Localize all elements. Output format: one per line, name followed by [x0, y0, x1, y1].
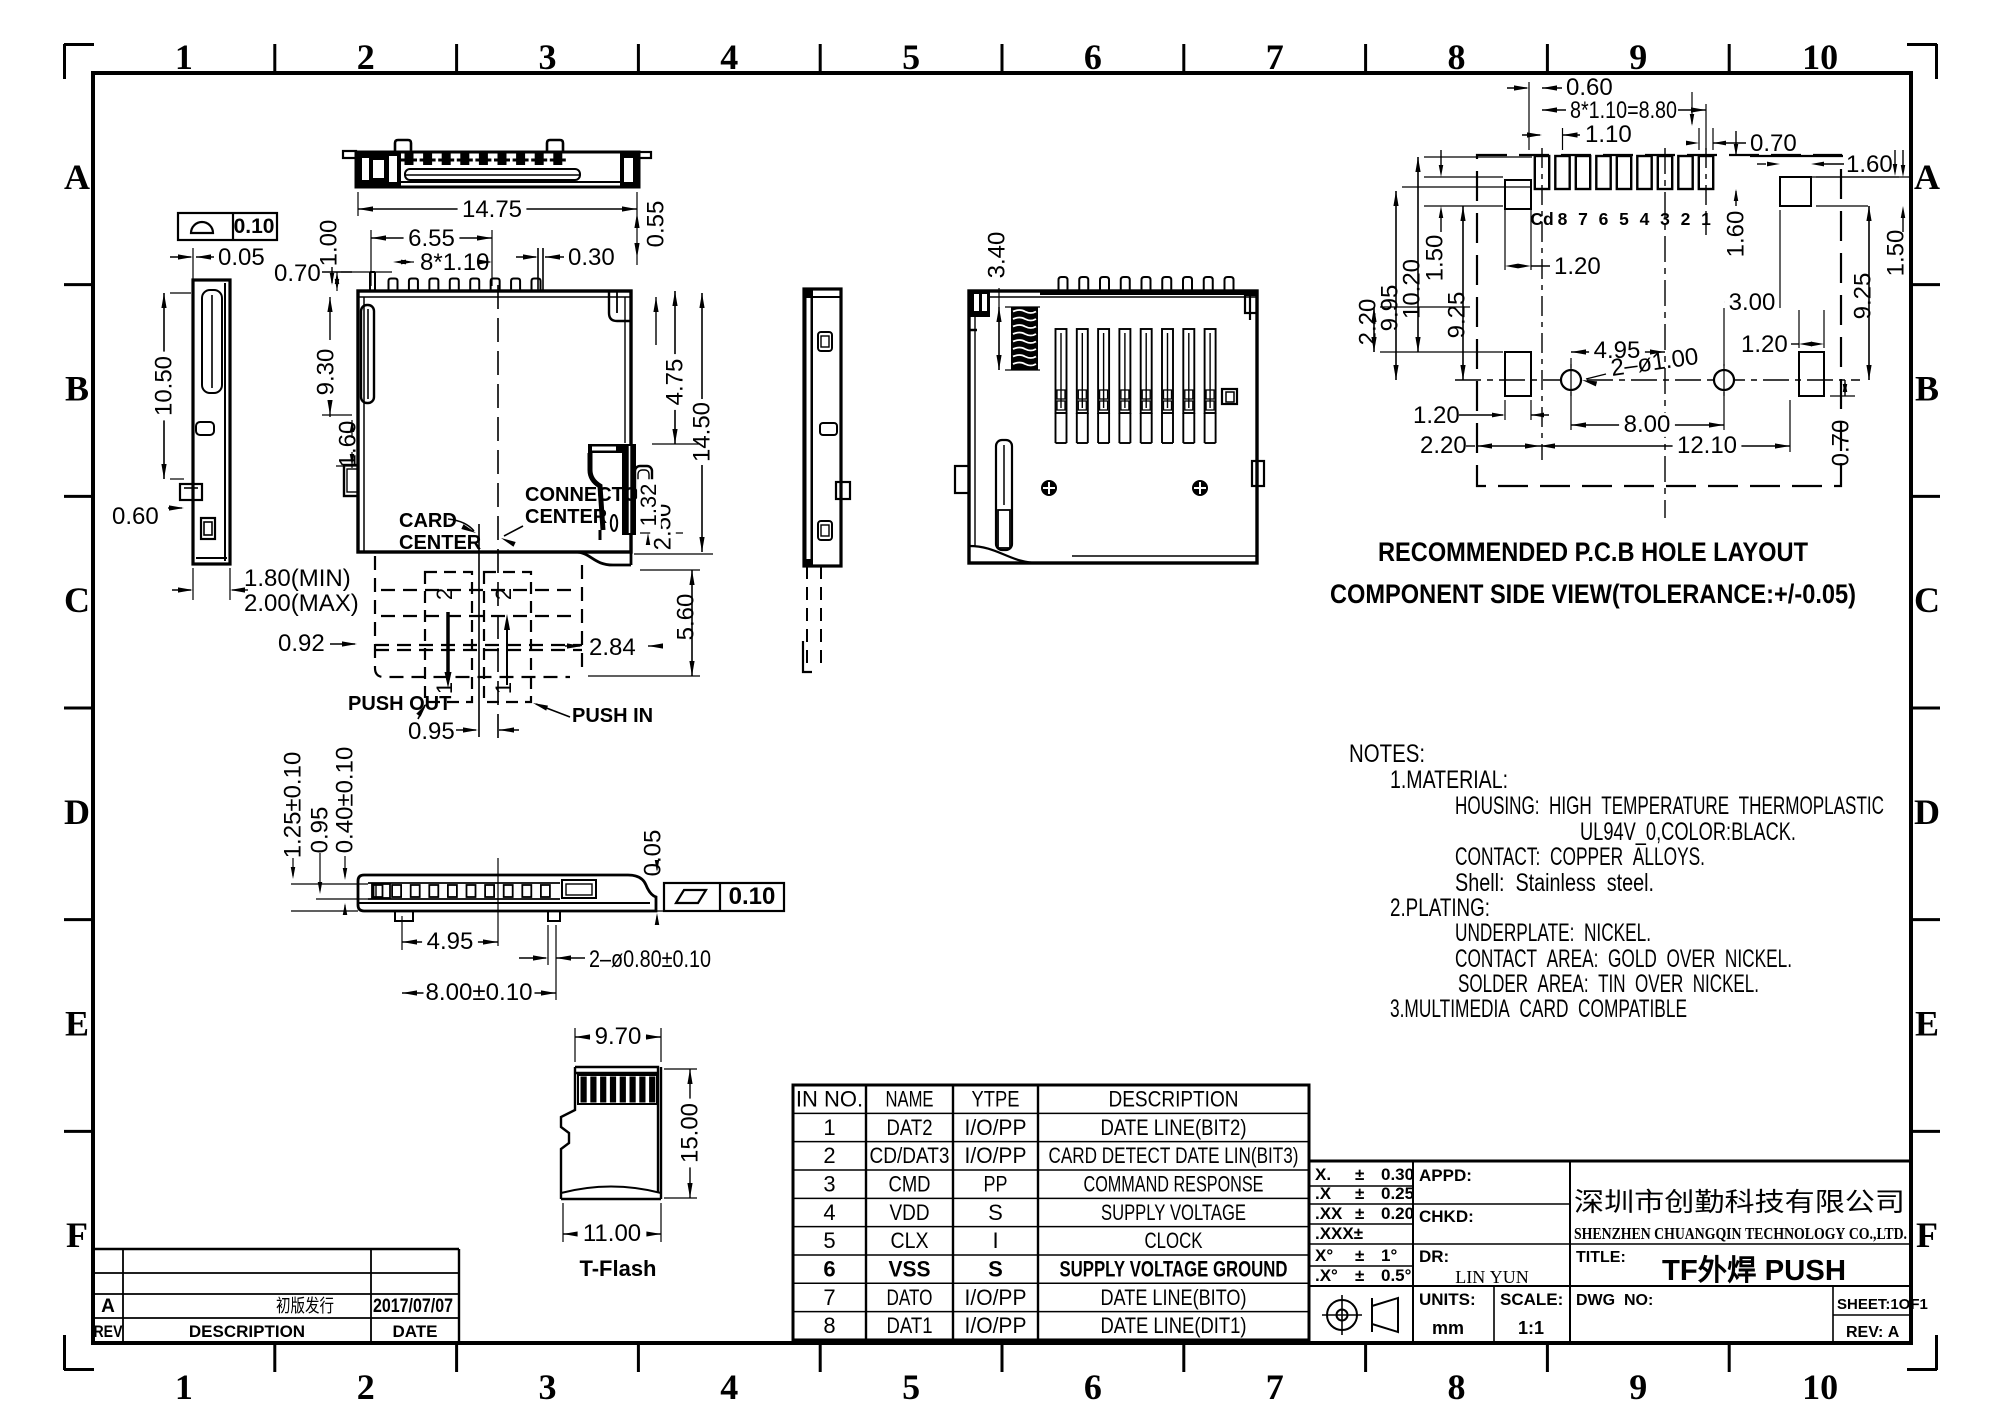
feature control frame parallelogram 0.10 — [664, 883, 784, 911]
dim 1.20 pcb right — [1799, 342, 1812, 347]
dim 2.50 — [638, 507, 660, 509]
svg-text:CARD: CARD — [399, 510, 457, 532]
pcb center lines — [1664, 148, 1666, 518]
svg-text:VDD: VDD — [890, 1200, 930, 1225]
dim 2-dia0.80 — [547, 925, 549, 965]
svg-text:CONTACT: COPPER ALLOYS.: CONTACT: COPPER ALLOYS. — [1455, 843, 1705, 871]
svg-text:0.60: 0.60 — [112, 503, 159, 530]
svg-text:B: B — [1915, 369, 1939, 409]
svg-text:IN NO.: IN NO. — [796, 1087, 863, 1112]
component view top-left notch — [969, 291, 990, 317]
main view tall pin left — [369, 272, 371, 291]
side view 2 details — [818, 332, 832, 351]
title block outline — [1309, 1160, 1911, 1163]
svg-text:±: ± — [1355, 1246, 1364, 1265]
svg-text:PP: PP — [984, 1171, 1008, 1196]
svg-text:SUPPLY VOLTAGE GROUND: SUPPLY VOLTAGE GROUND — [1060, 1256, 1288, 1281]
svg-text:2.00(MAX): 2.00(MAX) — [244, 590, 359, 617]
cone symbol — [1372, 1298, 1398, 1332]
dim 2.84 — [565, 645, 580, 647]
svg-text:CENTER: CENTER — [525, 506, 608, 528]
top view left dark section — [357, 152, 401, 187]
svg-text:NAME: NAME — [886, 1087, 934, 1112]
component view top pins — [1059, 277, 1068, 291]
svg-text:12.10: 12.10 — [1677, 432, 1737, 459]
dim 4.75 — [655, 297, 657, 345]
svg-text:1.20: 1.20 — [1741, 331, 1788, 358]
svg-text:4.95: 4.95 — [427, 928, 474, 955]
svg-text:.X: .X — [1315, 1184, 1332, 1203]
svg-text:DATE: DATE — [392, 1322, 437, 1341]
svg-text:2: 2 — [432, 588, 457, 600]
svg-text:UNDERPLATE: NICKEL.: UNDERPLATE: NICKEL. — [1455, 919, 1651, 947]
bottom view feet tabs — [395, 911, 413, 921]
dim 14.50 — [634, 553, 713, 555]
dim 8.00 bottom view — [402, 992, 556, 994]
bottom view right inner block — [562, 880, 596, 898]
component view contact slots — [1056, 329, 1067, 413]
corner trim marks — [64, 43, 94, 46]
pcb holes 2-dia1.00 — [1561, 370, 1581, 390]
component view bottom break — [969, 546, 1039, 563]
svg-text:E: E — [1915, 1004, 1939, 1044]
side view 2 top cap — [804, 289, 841, 297]
dim 5.60 — [691, 570, 693, 676]
svg-text:DAT1: DAT1 — [887, 1313, 933, 1338]
top view mount bumps — [395, 140, 411, 152]
svg-text:9.25: 9.25 — [1444, 292, 1471, 339]
svg-text:APPD:: APPD: — [1419, 1166, 1472, 1185]
svg-text:7: 7 — [1578, 209, 1588, 229]
svg-text:0.70: 0.70 — [274, 260, 321, 287]
svg-text:1: 1 — [491, 682, 516, 694]
svg-text:3.MULTIMEDIA CARD COMPATIBLE: 3.MULTIMEDIA CARD COMPATIBLE — [1390, 995, 1687, 1023]
svg-text:0.30: 0.30 — [568, 244, 615, 271]
dim 14.75 — [357, 192, 359, 216]
svg-text:REV: A: REV: A — [1846, 1324, 1900, 1341]
top view right tab — [639, 152, 651, 158]
svg-text:C: C — [1914, 580, 1940, 620]
svg-text:COMPONENT SIDE VIEW(TOLERANCE:: COMPONENT SIDE VIEW(TOLERANCE:+/-0.05) — [1330, 579, 1856, 609]
top view pin row — [405, 152, 414, 165]
svg-text:±: ± — [1355, 1184, 1364, 1203]
svg-text:DESCRIPTION: DESCRIPTION — [189, 1322, 305, 1341]
svg-text:5: 5 — [902, 37, 920, 77]
tflash dim 11.00 — [562, 1203, 564, 1242]
svg-text:.X°: .X° — [1315, 1266, 1338, 1285]
card center line — [478, 524, 480, 737]
svg-text:14.50: 14.50 — [689, 402, 716, 462]
svg-text:4: 4 — [823, 1200, 835, 1225]
svg-text:A: A — [64, 157, 90, 197]
svg-text:±: ± — [1355, 1204, 1364, 1223]
svg-text:6: 6 — [1084, 37, 1102, 77]
svg-text:8: 8 — [823, 1313, 835, 1338]
dim 1.60 pcb top right — [1750, 155, 1843, 157]
svg-text:2: 2 — [491, 588, 516, 600]
svg-text:.XX: .XX — [1315, 1204, 1343, 1223]
svg-text:DATO: DATO — [887, 1285, 933, 1310]
svg-text:HOUSING: HIGH TEMPERATURE T: HOUSING: HIGH TEMPERATURE THERMOPLASTIC — [1455, 792, 1884, 820]
svg-text:5: 5 — [902, 1367, 920, 1407]
svg-text:S: S — [988, 1256, 1003, 1281]
svg-text:5: 5 — [1619, 209, 1629, 229]
svg-text:14.75: 14.75 — [462, 196, 522, 223]
left side view spring slot — [202, 290, 222, 393]
svg-text:I: I — [992, 1228, 998, 1253]
svg-text:1.50: 1.50 — [1422, 235, 1449, 282]
side view 2 body — [804, 289, 841, 566]
tflash dim 9.70 — [574, 1028, 576, 1062]
svg-text:CONTACT AREA: GOLD OVER NI: CONTACT AREA: GOLD OVER NICKEL. — [1455, 945, 1792, 973]
left side view mid tab — [196, 422, 214, 435]
svg-text:8*1.10: 8*1.10 — [420, 249, 489, 276]
main view bottom edge with break — [358, 552, 631, 565]
svg-text:0.10: 0.10 — [729, 883, 776, 910]
dim 0.70 pcb top — [1698, 128, 1700, 150]
svg-text:1.60: 1.60 — [1846, 151, 1893, 178]
component view card rail — [996, 440, 1012, 550]
svg-text:TITLE:: TITLE: — [1576, 1249, 1626, 1266]
svg-text:5: 5 — [823, 1228, 835, 1253]
dim 1.10 pcb — [1562, 128, 1564, 150]
svg-text:6: 6 — [1084, 1367, 1102, 1407]
revision table grid — [93, 1248, 459, 1250]
projection symbol cell — [1309, 1285, 1911, 1287]
dim 4.95 pcb — [1571, 351, 1665, 353]
svg-text:4: 4 — [720, 37, 738, 77]
svg-text:11.00: 11.00 — [583, 1220, 641, 1247]
svg-text:9: 9 — [1629, 1367, 1647, 1407]
svg-text:LIN YUN: LIN YUN — [1455, 1267, 1529, 1287]
svg-text:1: 1 — [823, 1115, 835, 1140]
dim 0.05 side view — [192, 248, 194, 281]
svg-text:SUPPLY VOLTAGE: SUPPLY VOLTAGE — [1101, 1200, 1246, 1225]
svg-text:UL94V_0,COLOR:BLACK.: UL94V_0,COLOR:BLACK. — [1580, 818, 1796, 846]
svg-text:9: 9 — [1629, 37, 1647, 77]
svg-text:6: 6 — [823, 1256, 835, 1281]
svg-text:A: A — [1914, 157, 1940, 197]
svg-text:1.00: 1.00 — [316, 220, 343, 267]
dim 1.32 — [646, 496, 651, 508]
svg-text:TF外焊 PUSH: TF外焊 PUSH — [1662, 1254, 1846, 1287]
svg-text:D: D — [1914, 792, 1940, 832]
svg-text:深圳市创勤科技有限公司: 深圳市创勤科技有限公司 — [1574, 1187, 1905, 1217]
svg-text:F: F — [66, 1215, 88, 1255]
feature control frame flatness 0.10 — [178, 213, 277, 240]
dim 0.30 — [516, 256, 536, 258]
svg-text:0.92: 0.92 — [278, 630, 325, 657]
svg-text:10: 10 — [1802, 1367, 1838, 1407]
svg-text:NOTES:: NOTES: — [1349, 740, 1425, 768]
units scale cells — [1493, 1286, 1495, 1343]
svg-text:0.30: 0.30 — [1381, 1165, 1414, 1184]
bottom view center line — [497, 858, 499, 946]
top view outline — [356, 152, 639, 187]
component view right edge tabs — [1249, 291, 1251, 320]
svg-text:S: S — [988, 1200, 1003, 1225]
svg-text:T-Flash: T-Flash — [579, 1256, 656, 1281]
svg-text:2.PLATING:: 2.PLATING: — [1390, 894, 1490, 922]
svg-text:CD/DAT3: CD/DAT3 — [870, 1143, 950, 1168]
pcb side pads — [1505, 180, 1531, 209]
dim 1.80 min 2.00 max — [192, 568, 194, 600]
grid row ticks and letters — [64, 283, 93, 286]
svg-text:1:1: 1:1 — [1518, 1318, 1544, 1338]
svg-text:I/O/PP: I/O/PP — [965, 1313, 1027, 1338]
top view inner bar — [405, 169, 580, 180]
svg-text:YTPE: YTPE — [972, 1087, 1020, 1112]
svg-text:1.25±0.10: 1.25±0.10 — [280, 752, 307, 859]
svg-text:3: 3 — [539, 1367, 557, 1407]
svg-text:1.20: 1.20 — [1413, 402, 1460, 429]
dim 8.00 pcb — [1571, 424, 1724, 426]
main view body outline — [358, 291, 631, 552]
svg-text:E: E — [65, 1004, 89, 1044]
svg-text:8.00±0.10: 8.00±0.10 — [426, 979, 533, 1006]
grid column ticks and numbers — [273, 44, 276, 73]
main view pin 0.30 — [537, 248, 539, 291]
svg-text:SOLDER AREA: TIN OVER NICK: SOLDER AREA: TIN OVER NICKEL. — [1458, 970, 1759, 998]
push travel box right — [484, 572, 531, 702]
title row — [1570, 1243, 1911, 1245]
component view outline — [969, 291, 1257, 563]
svg-text:C: C — [64, 580, 90, 620]
svg-text:1.60: 1.60 — [1723, 211, 1750, 258]
dim 8x1.10 — [393, 260, 406, 265]
svg-text:±: ± — [1355, 1165, 1364, 1184]
svg-text:2.20: 2.20 — [1420, 432, 1467, 459]
svg-text:1.50: 1.50 — [1883, 230, 1910, 277]
component view spring coil — [1011, 307, 1038, 370]
svg-text:10: 10 — [1802, 37, 1838, 77]
svg-text:VSS: VSS — [889, 1256, 931, 1281]
main view top right hook — [609, 291, 631, 321]
top view left tab — [343, 151, 356, 158]
side view 2 dashed leads — [806, 566, 808, 668]
svg-text:5.60: 5.60 — [673, 594, 700, 641]
svg-text:0.20: 0.20 — [1381, 1204, 1414, 1223]
svg-text:DESCRIPTION: DESCRIPTION — [1109, 1087, 1239, 1112]
left side view body — [193, 280, 230, 564]
tflash dim 15.00 — [664, 1068, 697, 1070]
svg-text:0.25: 0.25 — [1381, 1184, 1414, 1203]
svg-text:X°: X° — [1315, 1246, 1333, 1265]
svg-text:I/O/PP: I/O/PP — [965, 1285, 1027, 1310]
svg-text:3: 3 — [539, 37, 557, 77]
svg-text:CONNECTOR: CONNECTOR — [525, 484, 654, 506]
svg-text:0.95: 0.95 — [307, 807, 334, 854]
svg-text:2: 2 — [1681, 209, 1691, 229]
svg-text:DWG NO:: DWG NO: — [1576, 1292, 1653, 1309]
bottom view left inner detail — [372, 884, 390, 898]
svg-text:A: A — [101, 1296, 115, 1317]
svg-text:4.75: 4.75 — [662, 359, 689, 406]
svg-text:CHKD:: CHKD: — [1419, 1207, 1474, 1226]
svg-text:初版发行: 初版发行 — [276, 1296, 334, 1316]
main view top pins — [389, 279, 398, 292]
svg-text:8: 8 — [1448, 37, 1466, 77]
svg-text:7: 7 — [1266, 1367, 1284, 1407]
svg-text:X.: X. — [1315, 1165, 1331, 1184]
svg-text:6.55: 6.55 — [408, 225, 455, 252]
left side view bottom detail — [201, 518, 215, 539]
svg-text:CLX: CLX — [891, 1228, 929, 1253]
svg-text:RECOMMENDED P.C.B HOLE LAYOUT: RECOMMENDED P.C.B HOLE LAYOUT — [1378, 537, 1808, 567]
pin table grid — [793, 1085, 1309, 1340]
svg-text:1.20: 1.20 — [1554, 253, 1601, 280]
svg-text:1.80(MIN): 1.80(MIN) — [244, 565, 351, 592]
connector center line — [497, 285, 499, 740]
svg-text:COMMAND RESPONSE: COMMAND RESPONSE — [1084, 1171, 1264, 1196]
svg-text:9.30: 9.30 — [313, 349, 340, 396]
svg-text:1.60: 1.60 — [335, 421, 362, 468]
svg-text:7: 7 — [823, 1285, 835, 1310]
svg-text:8.00: 8.00 — [1624, 411, 1671, 438]
top view right dark column — [620, 153, 639, 186]
tolerance table — [1309, 1185, 1413, 1187]
svg-text:D: D — [64, 792, 90, 832]
svg-text:9.70: 9.70 — [595, 1023, 642, 1050]
svg-text:±: ± — [1355, 1266, 1364, 1285]
pcb pads top row — [1535, 156, 1549, 189]
svg-text:1.MATERIAL:: 1.MATERIAL: — [1390, 766, 1508, 794]
dim 0.55 — [634, 213, 639, 228]
svg-text:2: 2 — [357, 1367, 375, 1407]
svg-text:7: 7 — [1266, 37, 1284, 77]
dim 6.55 — [370, 230, 372, 286]
dim 10.50 — [170, 292, 191, 294]
svg-text:0.40±0.10: 0.40±0.10 — [332, 747, 359, 854]
svg-text:10.50: 10.50 — [151, 356, 178, 416]
dim 4.95 bottom view — [401, 916, 403, 950]
svg-text:2: 2 — [357, 37, 375, 77]
dim 1.20 pcb upper — [1505, 264, 1518, 269]
svg-text:Shell: Stainless steel.: Shell: Stainless steel. — [1455, 869, 1654, 897]
tflash card outline — [561, 1067, 658, 1193]
push travel box left — [425, 572, 472, 702]
svg-text:0.70: 0.70 — [1828, 420, 1855, 467]
svg-text:1.10: 1.10 — [1585, 121, 1632, 148]
component view small square — [1222, 389, 1237, 404]
bottom view outline — [358, 875, 656, 911]
pcb layout dashed outline — [1477, 155, 1841, 486]
svg-text:8: 8 — [1558, 209, 1568, 229]
svg-text:1.32: 1.32 — [636, 484, 661, 527]
bottom view pin squares — [374, 885, 383, 897]
dashed card outline below — [375, 556, 570, 677]
svg-text:1: 1 — [175, 1367, 193, 1407]
svg-text:DAT2: DAT2 — [887, 1115, 933, 1140]
svg-text:REV: REV — [94, 1322, 124, 1341]
svg-text:B: B — [65, 369, 89, 409]
svg-text:I/O/PP: I/O/PP — [965, 1143, 1027, 1168]
dim 3.00 — [1724, 301, 1780, 303]
svg-text:0.05: 0.05 — [640, 830, 667, 877]
svg-text:2017/07/07: 2017/07/07 — [373, 1296, 453, 1317]
svg-text:3.00: 3.00 — [1729, 289, 1776, 316]
svg-text:DR:: DR: — [1419, 1247, 1449, 1266]
svg-text:UNITS:: UNITS: — [1419, 1290, 1476, 1309]
svg-text:1: 1 — [175, 37, 193, 77]
svg-text:F: F — [1916, 1215, 1938, 1255]
svg-text:2.84: 2.84 — [589, 634, 636, 661]
svg-text:0.55: 0.55 — [643, 201, 670, 248]
middle cells appd chkd dr — [1413, 1203, 1570, 1205]
svg-text:0.05: 0.05 — [218, 244, 265, 271]
main view right latch spring — [622, 444, 636, 535]
svg-text:0.5°: 0.5° — [1381, 1266, 1412, 1285]
left side view foot — [180, 484, 202, 500]
tflash contacts — [578, 1075, 657, 1104]
svg-text:15.00: 15.00 — [677, 1103, 704, 1163]
svg-text:PUSH OUT: PUSH OUT — [348, 693, 451, 715]
svg-text:0.95: 0.95 — [408, 718, 455, 745]
svg-text:2–ø0.80±0.10: 2–ø0.80±0.10 — [589, 946, 711, 973]
svg-text:.XXX±: .XXX± — [1315, 1224, 1363, 1243]
svg-text:mm: mm — [1432, 1318, 1464, 1338]
component view rivet holes — [1041, 480, 1057, 496]
svg-text:3: 3 — [823, 1171, 835, 1196]
svg-text:I/O/PP: I/O/PP — [965, 1115, 1027, 1140]
svg-text:8: 8 — [1448, 1367, 1466, 1407]
svg-text:1°: 1° — [1381, 1246, 1397, 1265]
svg-text:0.10: 0.10 — [234, 215, 275, 238]
svg-text:3.40: 3.40 — [984, 232, 1011, 279]
main view left spring strip — [361, 305, 374, 403]
svg-text:DATE LINE(DIT1): DATE LINE(DIT1) — [1101, 1313, 1247, 1338]
svg-text:SHENZHEN CHUANGQIN TECHNOLOGY: SHENZHEN CHUANGQIN TECHNOLOGY CO.,LTD. — [1574, 1224, 1907, 1243]
svg-text:4: 4 — [720, 1367, 738, 1407]
dim 1.60 pcb inner vertical — [1735, 131, 1737, 154]
svg-text:CMD: CMD — [889, 1171, 931, 1196]
svg-text:SCALE:: SCALE: — [1500, 1290, 1563, 1309]
component view left tab — [955, 466, 969, 493]
svg-text:SHEET:1OF1: SHEET:1OF1 — [1837, 1296, 1928, 1313]
svg-text:8*1.10=8.80: 8*1.10=8.80 — [1570, 97, 1677, 124]
svg-text:9.25: 9.25 — [1850, 273, 1877, 320]
dim 12.10 — [1540, 445, 1790, 447]
svg-text:DATE LINE(BIT2): DATE LINE(BIT2) — [1101, 1115, 1247, 1140]
svg-text:PUSH IN: PUSH IN — [572, 705, 653, 727]
svg-text:CARD DETECT DATE LIN(BIT3): CARD DETECT DATE LIN(BIT3) — [1049, 1143, 1299, 1168]
svg-text:2: 2 — [823, 1143, 835, 1168]
svg-text:0.70: 0.70 — [1750, 130, 1797, 157]
svg-text:CLOCK: CLOCK — [1145, 1228, 1203, 1253]
main view left mid tab — [344, 465, 358, 496]
svg-text:CENTER: CENTER — [399, 532, 482, 554]
svg-text:4: 4 — [1640, 209, 1650, 229]
dim 8x1.10=8.80 — [1705, 104, 1707, 150]
svg-text:6: 6 — [1599, 209, 1609, 229]
svg-text:DATE LINE(BITO): DATE LINE(BITO) — [1101, 1285, 1247, 1310]
